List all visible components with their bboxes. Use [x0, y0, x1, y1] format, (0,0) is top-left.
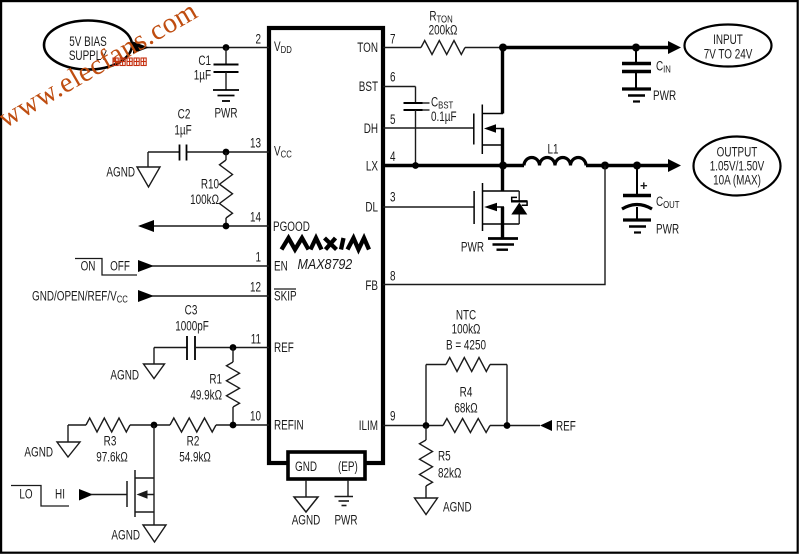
svg-text:4: 4	[390, 150, 396, 165]
wire EN	[152, 265, 269, 267]
svg-text:PWR: PWR	[653, 89, 676, 104]
svg-text:3: 3	[390, 190, 396, 205]
capacitor COUT polarized	[636, 166, 638, 195]
svg-text:B = 4250: B = 4250	[446, 338, 486, 353]
svg-text:PWR: PWR	[656, 222, 679, 237]
svg-text:PGOOD: PGOOD	[273, 220, 310, 235]
AGND under R5	[415, 498, 438, 515]
svg-text:(EP): (EP)	[338, 460, 358, 475]
svg-text:68kΩ: 68kΩ	[454, 401, 478, 416]
resistor R5	[420, 440, 433, 486]
svg-text:NTC: NTC	[456, 308, 477, 323]
wire drain to REFIN junction	[153, 425, 155, 478]
AGND under GND pin	[305, 480, 307, 497]
arrow into INPUT	[668, 41, 681, 54]
svg-text:R2: R2	[187, 434, 200, 449]
wire 5V supply to VDD	[131, 47, 269, 49]
svg-text:13: 13	[250, 136, 261, 151]
node FB junction	[601, 162, 609, 170]
resistor R10	[220, 160, 233, 218]
svg-text:LX: LX	[366, 159, 378, 174]
PWR ground under low-side MOSFET	[488, 237, 518, 240]
MAXIM logo	[282, 238, 370, 250]
PWR ground under EP	[347, 480, 349, 497]
svg-text:100kΩ: 100kΩ	[452, 322, 481, 337]
resistor R1	[232, 348, 234, 363]
svg-text:C2: C2	[178, 107, 191, 122]
svg-text:1000pF: 1000pF	[175, 319, 209, 334]
svg-text:7: 7	[390, 32, 396, 47]
ON/OFF logic symbol	[75, 259, 137, 276]
svg-text:82kΩ: 82kΩ	[438, 466, 462, 481]
svg-text:12: 12	[250, 280, 261, 295]
svg-text:MAX8792: MAX8792	[298, 256, 353, 272]
svg-text:FB: FB	[365, 279, 378, 294]
wire LX	[383, 164, 524, 167]
transistor Q1 (REFIN switch MOSFET)	[127, 470, 154, 517]
svg-text:200kΩ: 200kΩ	[429, 23, 458, 38]
thick input bus	[503, 46, 670, 49]
svg-text:REF: REF	[274, 341, 294, 356]
svg-text:HI: HI	[55, 487, 65, 502]
svg-text:EN: EN	[274, 259, 288, 274]
svg-text:11: 11	[251, 332, 261, 347]
wire ILIM	[383, 425, 426, 427]
thick drain bus	[501, 46, 504, 114]
node VCC/R10 junction	[223, 149, 230, 156]
svg-text:C3: C3	[185, 303, 198, 318]
node R4/NTC junction	[504, 422, 511, 429]
svg-text:GND/OPEN/REF/VCC: GND/OPEN/REF/VCC	[32, 289, 128, 305]
svg-text:54.9kΩ: 54.9kΩ	[179, 450, 211, 465]
wire SKIP	[152, 295, 269, 297]
arrow into SKIP	[138, 290, 154, 302]
capacitor CBST	[404, 102, 423, 104]
svg-text:6: 6	[390, 70, 396, 85]
svg-text:INPUT: INPUT	[713, 33, 743, 48]
svg-text:DH: DH	[364, 122, 378, 137]
wire FB	[383, 166, 605, 285]
PWR ground under C1	[213, 89, 239, 91]
node TON junction	[499, 44, 507, 52]
svg-text:AGND: AGND	[111, 528, 140, 543]
wire DH	[383, 127, 474, 129]
capacitor CIN	[635, 48, 637, 63]
arrow from REF	[540, 420, 552, 431]
op-amp U1 MAX8792 IC body	[269, 28, 383, 463]
transistor Q2 (high-side MOSFET)	[474, 105, 504, 155]
AGND at R3	[67, 425, 69, 442]
arrow into gate	[79, 489, 93, 501]
svg-text:SKIP: SKIP	[274, 289, 297, 304]
node R2/R1/REFIN junction	[230, 422, 237, 429]
5V BIAS SUPPLY bubble	[44, 21, 132, 70]
svg-text:R3: R3	[104, 434, 117, 449]
node ILIM/R5 junction	[423, 422, 430, 429]
AGND at C3	[153, 348, 155, 365]
wire PGOOD	[140, 225, 269, 227]
node REF/R1 junction	[230, 344, 237, 351]
resistor RTON	[383, 47, 421, 49]
svg-text:C1: C1	[198, 54, 211, 69]
NTC thermistor loop	[425, 365, 427, 426]
svg-text:9: 9	[390, 409, 396, 424]
svg-text:GND: GND	[295, 460, 317, 475]
wire L1 to OUTPUT	[586, 164, 670, 167]
svg-text:100kΩ: 100kΩ	[190, 193, 219, 208]
svg-text:TON: TON	[357, 41, 378, 56]
GND (EP) exposed pad box	[288, 452, 365, 479]
node CIN junction	[632, 44, 640, 52]
svg-text:1µF: 1µF	[174, 123, 191, 138]
svg-text:REF: REF	[556, 419, 576, 434]
wire REFIN row	[68, 424, 86, 426]
wire C3 to REF	[195, 347, 269, 349]
wire BST	[383, 86, 416, 88]
PWR ground under COUT	[623, 218, 651, 221]
svg-text:PWR: PWR	[461, 240, 484, 255]
svg-text:LO: LO	[19, 487, 32, 502]
arrow into EN	[138, 260, 154, 272]
svg-text:L1: L1	[547, 142, 558, 157]
svg-text:BST: BST	[359, 80, 378, 95]
wire gate	[91, 494, 127, 496]
node PGOOD/R10 junction	[223, 223, 230, 230]
svg-text:2: 2	[255, 32, 261, 47]
arrow into OUTPUT	[668, 159, 681, 172]
svg-text:10: 10	[250, 409, 261, 424]
wire DL	[383, 206, 474, 208]
OUTPUT bubble	[694, 137, 781, 196]
arrow into VDD wire	[133, 42, 149, 54]
svg-text:ON: ON	[81, 259, 96, 274]
svg-text:R10: R10	[201, 177, 220, 192]
arrow PGOOD pointing left	[138, 220, 154, 232]
capacitor C1	[225, 48, 227, 65]
AGND at C2	[147, 152, 149, 167]
svg-text:1: 1	[255, 250, 261, 265]
node R3/R2 junction	[151, 422, 158, 429]
svg-text:AGND: AGND	[443, 500, 472, 515]
svg-text:AGND: AGND	[24, 445, 53, 460]
PWR ground under CIN	[622, 87, 651, 90]
node LX junction	[499, 162, 507, 170]
watermark CJK chars	[113, 58, 146, 66]
svg-text:OUTPUT: OUTPUT	[717, 145, 758, 160]
AGND under MOSFET	[153, 512, 155, 525]
node VDD/C1 junction	[223, 44, 230, 51]
svg-text:5: 5	[390, 113, 396, 128]
svg-text:PWR: PWR	[334, 513, 357, 528]
svg-text:7V TO 24V: 7V TO 24V	[704, 47, 753, 62]
node COUT junction	[633, 162, 641, 170]
svg-text:8: 8	[390, 269, 396, 284]
svg-text:ILIM: ILIM	[359, 419, 378, 434]
svg-text:AGND: AGND	[106, 165, 135, 180]
svg-text:AGND: AGND	[292, 513, 321, 528]
wire C2 to VCC	[187, 151, 270, 153]
svg-text:10A (MAX): 10A (MAX)	[713, 173, 761, 188]
svg-text:1µF: 1µF	[194, 68, 211, 83]
resistor R4	[443, 419, 490, 433]
svg-text:DL: DL	[365, 200, 378, 215]
svg-text:R5: R5	[438, 449, 451, 464]
INPUT bubble	[685, 25, 772, 67]
svg-text:REFIN: REFIN	[274, 418, 304, 433]
svg-text:AGND: AGND	[110, 368, 139, 383]
svg-text:49.9kΩ: 49.9kΩ	[190, 388, 222, 403]
resistor R2	[170, 418, 216, 432]
LO/HI logic symbol	[11, 486, 69, 507]
svg-text:R4: R4	[460, 385, 473, 400]
svg-text:1.05V/1.50V: 1.05V/1.50V	[710, 159, 765, 174]
svg-text:+: +	[640, 178, 648, 193]
node CBST/LX junction	[412, 162, 419, 169]
svg-text:PWR: PWR	[214, 106, 237, 121]
schottky diode D1	[518, 191, 520, 201]
svg-text:14: 14	[250, 210, 261, 225]
inductor L1	[524, 158, 586, 166]
resistor R3	[86, 418, 130, 432]
svg-text:OFF: OFF	[110, 259, 130, 274]
svg-text:R1: R1	[209, 372, 222, 387]
svg-text:0.1µF: 0.1µF	[431, 110, 457, 125]
svg-text:97.6kΩ: 97.6kΩ	[96, 450, 128, 465]
transistor Q3 (low-side MOSFET)	[474, 183, 519, 231]
